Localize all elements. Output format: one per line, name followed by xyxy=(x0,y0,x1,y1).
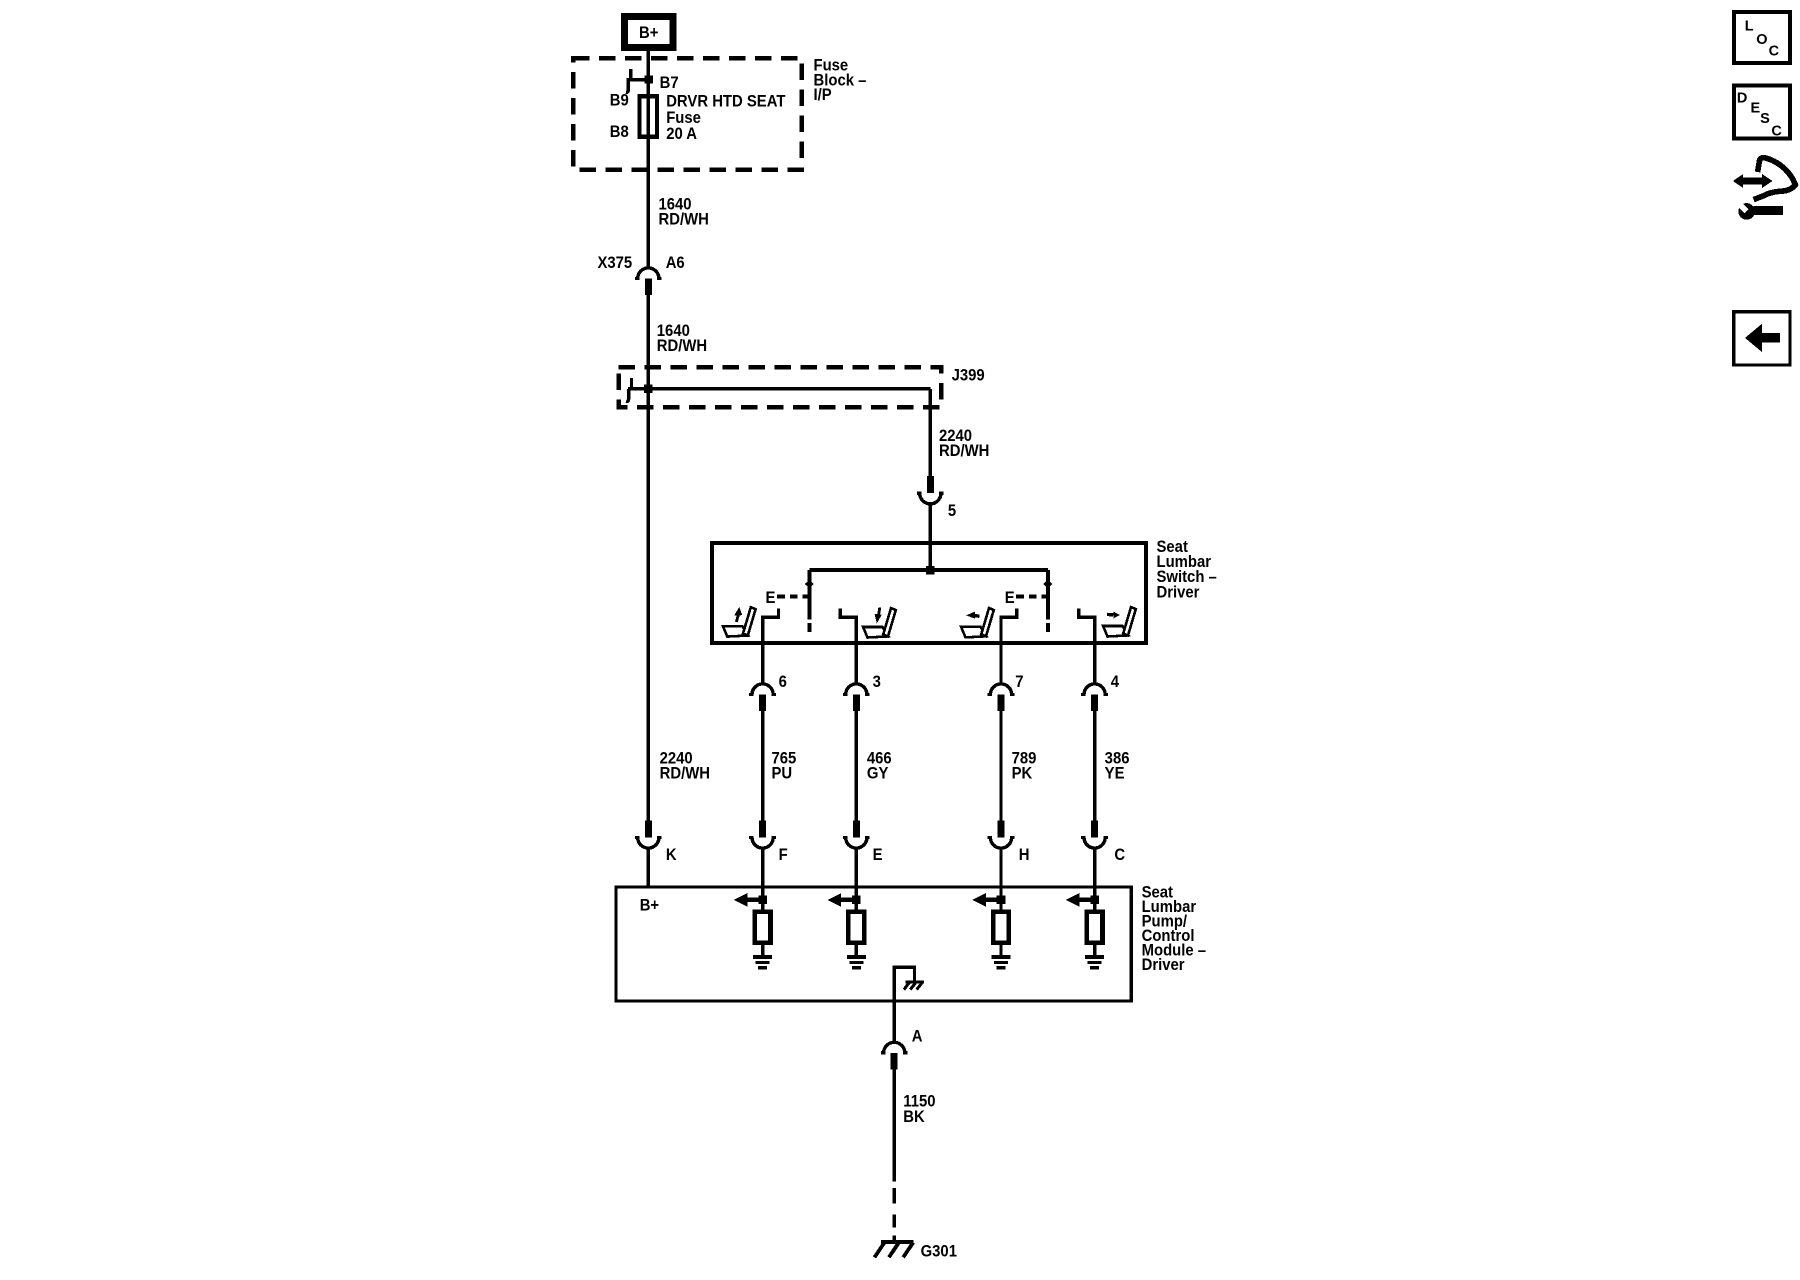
Seat Lumbar Pump/Control Module - Driver box xyxy=(616,887,1131,1001)
svg-text:RD/WH: RD/WH xyxy=(939,442,989,460)
back button xyxy=(1734,312,1790,365)
splice pack J399 dashed box xyxy=(619,367,942,407)
wire label 2240 RD/WH (left) xyxy=(660,750,710,783)
wire label 789 PK xyxy=(1012,750,1037,783)
power feed B+ symbol xyxy=(625,17,673,48)
connector at switch pin 3 xyxy=(843,684,870,711)
fuse block name label xyxy=(813,57,866,105)
connector at module pin K xyxy=(635,821,662,849)
module name label xyxy=(1142,884,1207,975)
svg-text:DRVR HTD SEAT: DRVR HTD SEAT xyxy=(666,92,785,110)
svg-text:YE: YE xyxy=(1105,764,1125,782)
seat icon: lumbar down xyxy=(863,608,896,638)
pump motor branch 1 xyxy=(734,887,772,968)
dashed wire to ground xyxy=(893,1188,896,1228)
svg-text:3: 3 xyxy=(873,673,881,691)
svg-text:BK: BK xyxy=(903,1108,925,1126)
svg-text:RD/WH: RD/WH xyxy=(658,211,708,229)
svg-text:RD/WH: RD/WH xyxy=(657,337,707,355)
svg-text:7: 7 xyxy=(1015,673,1023,691)
seat icon: lumbar up xyxy=(723,607,756,637)
branch wire J399 down to connector 5 xyxy=(929,389,932,478)
wire label 1640 RD/WH (lower) xyxy=(657,322,707,355)
connector at switch pin 5 xyxy=(917,476,944,504)
switch arm 1 (up/down rocker) xyxy=(805,570,814,632)
switch contact pin F xyxy=(763,608,779,684)
connector at module pin A xyxy=(881,1042,908,1069)
svg-text:RD/WH: RD/WH xyxy=(660,764,710,782)
svg-text:B7: B7 xyxy=(660,74,679,92)
connector at module pin E xyxy=(843,821,870,849)
wire circuit 1150 BK xyxy=(893,1068,896,1182)
svg-text:C: C xyxy=(1771,123,1782,139)
svg-text:PK: PK xyxy=(1012,764,1033,782)
wire B+ to fuse to connector X375 xyxy=(647,51,650,269)
fuse value label xyxy=(666,92,785,143)
svg-text:C: C xyxy=(1114,846,1125,864)
splice pigtail B7 inside fuse block xyxy=(626,69,653,92)
switch arm 2 (fwd/rear rocker) xyxy=(1043,570,1052,632)
svg-text:6: 6 xyxy=(779,673,787,691)
wire circuit 466 GY xyxy=(855,711,858,822)
wire label 1150 BK xyxy=(903,1093,935,1126)
svg-text:20 A: 20 A xyxy=(666,125,697,143)
svg-text:GY: GY xyxy=(867,764,889,782)
switch feed line xyxy=(809,568,1047,572)
svg-text:H: H xyxy=(1019,846,1030,864)
wire connector F into module xyxy=(761,847,764,887)
in-line connector X375 pin A6 xyxy=(635,268,662,295)
svg-text:E: E xyxy=(1751,101,1761,117)
svg-text:D: D xyxy=(1737,90,1747,106)
pump motor branch 2 xyxy=(828,887,866,968)
wire circuit 386 YE xyxy=(1093,711,1096,822)
svg-text:B+: B+ xyxy=(640,897,659,915)
connector at switch pin 4 xyxy=(1081,684,1108,711)
wire connector C into module xyxy=(1093,847,1096,887)
svg-text:X375: X375 xyxy=(597,254,632,272)
ground G301 xyxy=(875,1236,914,1258)
actuator E linkage 1 xyxy=(766,589,808,607)
wire connector 5 into switch xyxy=(929,504,932,571)
svg-text:G301: G301 xyxy=(921,1243,957,1261)
svg-text:A6: A6 xyxy=(666,254,685,272)
wire circuit 789 PK xyxy=(999,711,1002,822)
svg-text:4: 4 xyxy=(1111,673,1119,691)
svg-text:Driver: Driver xyxy=(1142,956,1185,974)
wire module pin A down xyxy=(893,1001,896,1043)
svg-text:I/P: I/P xyxy=(813,86,832,104)
svg-text:B8: B8 xyxy=(610,123,629,141)
actuator E linkage 2 xyxy=(1005,589,1046,607)
svg-text:K: K xyxy=(666,846,677,864)
junction dot at J399 splice xyxy=(644,385,653,394)
junction dot on feed line xyxy=(926,566,935,575)
wire label 386 YE xyxy=(1105,750,1130,783)
switch name label xyxy=(1156,538,1216,602)
wire label 466 GY xyxy=(867,750,892,783)
connector at switch pin 6 xyxy=(749,684,776,711)
svg-text:O: O xyxy=(1756,32,1767,48)
wire label 2240 RD/WH (right branch) xyxy=(939,427,989,460)
connector at module pin C xyxy=(1081,821,1108,848)
wire X375 to splice pack J399 to connector K xyxy=(647,295,650,822)
svg-text:L: L xyxy=(1745,19,1754,35)
connector at module pin F xyxy=(749,821,776,849)
seat icon: lumbar forward xyxy=(961,608,994,637)
seat icon: lumbar rearward xyxy=(1103,607,1136,636)
fuse block dashed box xyxy=(573,58,802,170)
pump motor branch 4 xyxy=(1066,887,1104,968)
svg-text:E: E xyxy=(766,589,776,607)
svg-text:J399: J399 xyxy=(952,367,985,385)
connector at switch pin 7 xyxy=(988,684,1015,711)
wire connector K into module xyxy=(647,847,650,887)
wire label 1640 RD/WH (upper) xyxy=(658,195,708,228)
svg-text:Driver: Driver xyxy=(1156,584,1199,602)
switch contact pin H xyxy=(1001,608,1017,684)
switch contact pin E xyxy=(840,608,856,684)
svg-text:PU: PU xyxy=(771,764,792,782)
svg-text:A: A xyxy=(912,1028,923,1046)
DESC button xyxy=(1734,86,1790,140)
splice pigtail in J399 xyxy=(626,378,631,402)
wire label 765 PU xyxy=(771,750,796,783)
svg-text:S: S xyxy=(1760,111,1770,127)
LOC button xyxy=(1734,12,1790,63)
svg-text:F: F xyxy=(779,846,788,864)
troubleshooting icon (arrows and wrench) xyxy=(1733,158,1796,220)
wire connector H into module xyxy=(999,847,1002,887)
fuse DRVR HTD SEAT 20A xyxy=(639,96,657,137)
svg-text:E: E xyxy=(873,846,883,864)
svg-text:C: C xyxy=(1769,43,1780,59)
wire circuit 765 PU xyxy=(761,711,764,822)
connector at module pin H xyxy=(988,821,1015,848)
switch contact pin C xyxy=(1079,608,1095,684)
svg-text:E: E xyxy=(1005,589,1015,607)
module internal chassis ground xyxy=(894,967,924,1001)
svg-text:5: 5 xyxy=(948,502,956,520)
svg-text:B9: B9 xyxy=(610,92,629,110)
svg-text:B+: B+ xyxy=(639,24,658,42)
wire connector E into module xyxy=(855,847,858,887)
splice branch wire inside J399 xyxy=(628,387,930,390)
Seat Lumbar Switch - Driver box xyxy=(712,543,1146,643)
pump motor branch 3 xyxy=(972,887,1010,968)
